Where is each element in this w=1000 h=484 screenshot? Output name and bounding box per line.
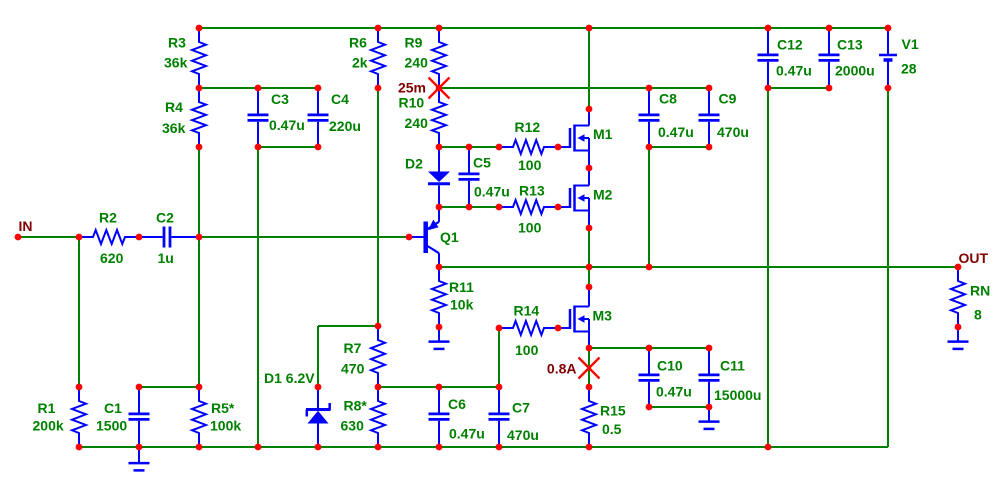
node dot: M3 gate: [555, 325, 562, 332]
wire R14 left down to C7 top: [498, 328, 500, 387]
svg-text:C6: C6: [448, 396, 466, 412]
node dot: D1 top: [315, 384, 322, 391]
node dot: R15 top: [586, 384, 593, 391]
node dot: R3/R4 junction: [196, 85, 203, 92]
svg-text:C1: C1: [104, 400, 122, 416]
node dot: OUT row / M3 drain branch: [586, 264, 593, 271]
wire C12 bottom to C13 bottom: [768, 87, 829, 89]
capacitor C7: [489, 387, 539, 447]
wire IN to input junction: [18, 236, 79, 238]
svg-text:0.47u: 0.47u: [658, 124, 694, 140]
node dot: C5 bottom: [466, 204, 473, 211]
svg-text:R4: R4: [165, 99, 183, 115]
current probe marker 25m probe: [429, 78, 450, 99]
node dot: D2 bottom / Q1 emitter: [436, 204, 443, 211]
node dot: C6 bottom: [436, 444, 443, 451]
node dot: M1 drain: [586, 106, 593, 113]
node dot: M3 drain: [586, 284, 593, 291]
svg-text:C11: C11: [720, 358, 745, 374]
svg-text:C7: C7: [512, 400, 530, 416]
svg-text:C4: C4: [331, 91, 349, 107]
wire node A row (R3/R4 junction to C3,C4 tops): [199, 87, 318, 89]
wire C3 bottom to C4 bottom: [258, 146, 318, 148]
svg-text:C5: C5: [473, 155, 491, 171]
wire D2 top row to R12: [439, 146, 499, 148]
node dot: R6 top: [375, 25, 382, 32]
node dot: R1 top: [76, 384, 83, 391]
wire V1 bottom column: [887, 88, 889, 447]
node dot: C13 bottom: [826, 85, 833, 92]
resistor RN: [951, 267, 990, 327]
svg-text:R14: R14: [514, 303, 540, 319]
svg-text:D2: D2: [405, 156, 423, 172]
node dot: C11 top: [706, 345, 713, 352]
node dot: R9 top: [436, 25, 443, 32]
capacitor C13: [819, 28, 875, 88]
node dot: C10 top: [646, 345, 653, 352]
svg-text:36k: 36k: [162, 120, 186, 136]
svg-text:R1: R1: [38, 400, 56, 416]
node dot: R3 top / V+ rail: [196, 25, 203, 32]
svg-text:220u: 220u: [329, 118, 361, 134]
wire R4 bottom through input node down to R5* top: [198, 147, 200, 387]
svg-text:620: 620: [100, 250, 124, 266]
resistor R8*: [341, 387, 386, 447]
svg-text:R8*: R8*: [344, 398, 368, 414]
wire input junction down to R1 top: [78, 237, 80, 387]
svg-text:100k: 100k: [210, 418, 241, 434]
resistor R5*: [192, 387, 241, 447]
ground below RN: [948, 327, 969, 349]
svg-text:470u: 470u: [507, 427, 539, 443]
resistor R15: [582, 387, 626, 447]
svg-text:0.5: 0.5: [602, 421, 622, 437]
wire D1 branch vertical: [317, 326, 319, 387]
svg-text:R3: R3: [168, 35, 186, 51]
node dot: R15 bottom: [586, 444, 593, 451]
capacitor C9: [699, 88, 749, 147]
node dot: R9/R10 junction: [436, 85, 443, 92]
svg-text:R2: R2: [99, 210, 117, 226]
node dot: C4 bottom: [315, 144, 322, 151]
svg-text:R9: R9: [405, 35, 423, 51]
ground below C1: [129, 449, 150, 471]
node dot: C13 top: [826, 25, 833, 32]
svg-text:R13: R13: [519, 183, 545, 199]
resistor R3: [164, 28, 206, 88]
svg-text:M1: M1: [593, 126, 613, 142]
wire C3 bottom down to ground rail: [257, 147, 259, 447]
resistor R13: [499, 183, 558, 236]
svg-text:200k: 200k: [33, 418, 64, 434]
capacitor C5: [459, 147, 510, 207]
node dot: C7 top: [496, 384, 503, 391]
capacitor C8: [639, 88, 694, 147]
node dot: R2/C2 junction: [136, 234, 143, 241]
resistor R12: [499, 119, 558, 173]
node dot: C8 column joins OUT row: [646, 264, 653, 271]
svg-text:C2: C2: [156, 210, 174, 226]
node dot: IN pin: [15, 234, 22, 241]
capacitor C1: [96, 387, 150, 447]
node dot: C4 top: [315, 85, 322, 92]
svg-text:240: 240: [405, 115, 429, 131]
svg-text:C3: C3: [271, 91, 289, 107]
capacitor C10: [639, 348, 692, 407]
wire M3 source row to C10,C11 tops: [589, 347, 709, 349]
capacitor C2: [139, 210, 199, 267]
wire M2 source to OUT row to M3 drain: [588, 228, 590, 287]
wire C1 top to R5* top: [139, 386, 199, 388]
node dot: R1 bottom: [76, 444, 83, 451]
svg-text:0.47u: 0.47u: [269, 117, 305, 133]
svg-text:0.8A: 0.8A: [547, 361, 577, 377]
wire R7/R8 junction row to C6,C7 tops: [378, 386, 499, 388]
node dot: RN bottom: [955, 324, 962, 331]
wire top rail to M1 drain: [588, 28, 590, 109]
svg-text:R10: R10: [399, 95, 425, 111]
transistor M3 (NMOS): [558, 287, 612, 348]
ground below R11: [429, 327, 450, 349]
svg-text:2k: 2k: [352, 55, 368, 71]
wire C10 bottom to C11 bottom: [649, 406, 709, 408]
node dot: C12 bottom: [765, 85, 772, 92]
svg-text:0.47u: 0.47u: [656, 384, 692, 400]
capacitor C12: [758, 28, 812, 88]
wire ground rail: [79, 446, 888, 448]
node dot: C3 bottom: [255, 144, 262, 151]
svg-text:M2: M2: [593, 187, 613, 203]
node dot: Q1 base: [406, 234, 413, 241]
svg-text:IN: IN: [19, 218, 33, 234]
svg-text:C13: C13: [837, 37, 863, 53]
svg-text:36k: 36k: [164, 55, 188, 71]
svg-text:R6: R6: [349, 35, 367, 51]
transistor M1 (NMOS): [558, 109, 613, 168]
node dot: R10 bottom / D2 top: [436, 144, 443, 151]
wire OUT row: [439, 266, 958, 268]
node dot: input junction: [76, 234, 83, 241]
node dot: C10 bottom: [646, 404, 653, 411]
node dot: C9 bottom: [706, 144, 713, 151]
node dot: R14 left: [496, 325, 503, 332]
node dot: R5* bottom: [196, 444, 203, 451]
svg-text:R12: R12: [515, 119, 541, 135]
svg-text:R5*: R5*: [211, 400, 235, 416]
node dot: D1 bottom: [315, 444, 322, 451]
svg-text:100: 100: [518, 220, 542, 236]
node dot: R7/R8 junction: [375, 384, 382, 391]
node dot: M1 gate: [555, 144, 562, 151]
svg-text:1500: 1500: [96, 418, 127, 434]
svg-text:0.47u: 0.47u: [474, 184, 510, 200]
transistor Q1 (PNP): [409, 207, 459, 267]
wire C8 bottom to OUT row: [648, 147, 650, 267]
node dot: M1 source / M2 drain: [586, 165, 593, 172]
node dot: C6 top: [436, 384, 443, 391]
transistor M2 (NMOS): [558, 168, 613, 228]
svg-text:C8: C8: [659, 91, 677, 107]
wire R6 bottom down to R7 top: [377, 88, 379, 326]
capacitor C3: [248, 88, 305, 147]
ground below C11: [699, 407, 720, 429]
node dot: C5 top: [466, 144, 473, 151]
voltage source V1 (battery): [879, 28, 919, 88]
node dot: R13 left: [496, 204, 503, 211]
wire C8 bottom to C9 bottom: [649, 146, 709, 148]
svg-text:470u: 470u: [717, 124, 749, 140]
node dot: R6 bottom: [375, 85, 382, 92]
capacitor C6: [429, 387, 485, 447]
svg-text:240: 240: [405, 55, 429, 71]
node dot: C8 bottom: [646, 144, 653, 151]
svg-text:28: 28: [901, 61, 917, 77]
node dot: R12 left: [496, 144, 503, 151]
svg-text:100: 100: [515, 342, 539, 358]
resistor R1: [33, 387, 87, 447]
wire R9/R10 junction to C8,C9 tops: [439, 87, 709, 89]
svg-text:V1: V1: [902, 36, 919, 52]
resistor R2: [79, 210, 139, 267]
resistor R9: [405, 28, 447, 88]
node dot: M2 gate: [555, 204, 562, 211]
node dot: C3 top: [255, 85, 262, 92]
svg-text:M3: M3: [593, 308, 613, 324]
wire C2 to Q1 base: [199, 236, 409, 238]
node dot: OUT pin: [955, 264, 962, 271]
capacitor C4: [308, 88, 361, 147]
svg-text:C12: C12: [777, 37, 803, 53]
svg-text:Q1: Q1: [440, 229, 459, 245]
svg-text:RN: RN: [970, 283, 990, 299]
resistor R4: [162, 88, 206, 147]
svg-text:0.47u: 0.47u: [449, 426, 485, 442]
svg-text:R7: R7: [344, 340, 362, 356]
wire V+ top rail: [199, 27, 888, 29]
svg-text:C10: C10: [657, 358, 683, 374]
node dot: C9 top: [706, 85, 713, 92]
wire D1 branch horizontal: [318, 325, 378, 327]
svg-text:0.47u: 0.47u: [776, 63, 812, 79]
node dot: M3 source: [586, 345, 593, 352]
node dot: V1 bottom: [885, 85, 892, 92]
node dot: C1 top: [136, 384, 143, 391]
svg-text:2000u: 2000u: [835, 63, 875, 79]
svg-text:630: 630: [341, 418, 365, 434]
svg-text:R15: R15: [600, 403, 626, 419]
node dot: V1 top: [885, 25, 892, 32]
node dot: R11 bottom: [436, 324, 443, 331]
resistor R7: [341, 326, 385, 387]
svg-text:25m: 25m: [398, 80, 426, 96]
svg-text:470: 470: [341, 361, 365, 377]
wire M3 source to R15 top: [588, 348, 590, 387]
svg-text:D1 6.2V: D1 6.2V: [264, 370, 315, 386]
node dot: C12 column at ground rail: [765, 444, 772, 451]
node dot: R4 bottom: [196, 144, 203, 151]
svg-text:R11: R11: [449, 279, 474, 295]
svg-text:10k: 10k: [450, 297, 474, 313]
svg-text:8: 8: [974, 307, 982, 323]
node dot: rail to M1-drain branch: [586, 25, 593, 32]
node dot: R8* bottom: [375, 444, 382, 451]
wire D2 bottom row to R13: [439, 206, 499, 208]
node dot: C1 bottom: [136, 444, 143, 451]
wire C12 bottom column: [767, 88, 769, 447]
node dot: R5* top: [196, 384, 203, 391]
node dot: Q1 collector / R11 top: [436, 264, 443, 271]
zener diode D1: [264, 370, 331, 447]
svg-text:C9: C9: [719, 91, 737, 107]
resistor R14: [499, 303, 558, 359]
resistor R6: [349, 28, 385, 88]
current probe marker 0.8A probe: [579, 358, 600, 379]
node dot: C11 bottom: [706, 404, 713, 411]
node dot: M2 source: [586, 225, 593, 232]
diode D2: [405, 147, 450, 207]
svg-text:15000u: 15000u: [714, 387, 761, 403]
svg-text:1u: 1u: [158, 250, 174, 266]
node dot: C7 bottom: [496, 444, 503, 451]
resistor R11: [432, 267, 474, 327]
node dot: C8 top: [646, 85, 653, 92]
svg-text:OUT: OUT: [959, 250, 989, 266]
node dot: C12 top: [765, 25, 772, 32]
node dot: R6/R7/D1 junction: [375, 323, 382, 330]
node dot: C3 column at ground rail: [255, 444, 262, 451]
node dot: C2 right junction: [196, 234, 203, 241]
resistor R10: [399, 88, 447, 147]
capacitor C11: [699, 348, 762, 407]
svg-text:100: 100: [518, 157, 542, 173]
